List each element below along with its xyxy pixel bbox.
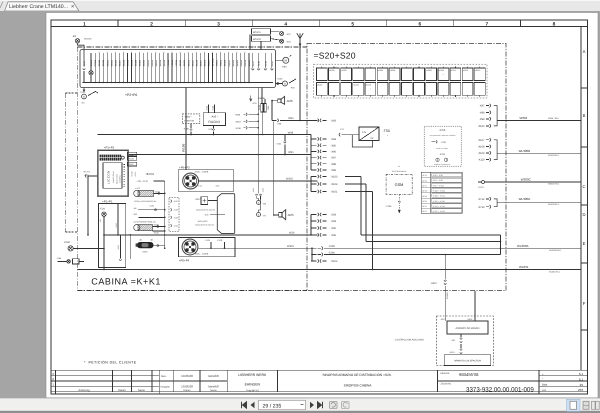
lamp -E9 bbox=[75, 39, 79, 43]
svg-text:6.1: 6.1 bbox=[579, 377, 584, 381]
svg-text:Name: Name bbox=[210, 389, 217, 392]
svg-text:-S8422: -S8422 bbox=[155, 59, 158, 67]
svg-text:-X98: -X98 bbox=[479, 112, 485, 115]
first page button bbox=[242, 402, 247, 408]
svg-text:+E+K2: +E+K2 bbox=[145, 172, 154, 176]
svg-text:-X191: -X191 bbox=[173, 225, 178, 228]
wire -X103 route down bbox=[345, 176, 361, 178]
GSM connector -X788 bbox=[398, 195, 400, 200]
svg-text:APARATO DE MANDO: APARATO DE MANDO bbox=[456, 327, 480, 330]
radio top connectors bbox=[208, 105, 210, 113]
svg-text:+F109 ÷ +F114: +F109 ÷ +F114 bbox=[433, 195, 445, 198]
svg-text:1040: 1040 bbox=[267, 106, 270, 110]
svg-text:+E106: +E106 bbox=[127, 172, 130, 177]
svg-text:W300C/S6.1: W300C/S6.1 bbox=[548, 183, 560, 186]
svg-text:RADIO: RADIO bbox=[208, 120, 220, 124]
wire W19 bbox=[104, 234, 318, 236]
svg-text:8: 8 bbox=[553, 21, 556, 27]
junction bus at 500 bbox=[500, 235, 502, 255]
plug stack -X93..-X96 bbox=[310, 215, 312, 235]
svg-text:Zeichn-Nr.: Zeichn-Nr. bbox=[441, 383, 452, 386]
svg-text:-X910: -X910 bbox=[431, 282, 438, 285]
horn connectors -X135 -X136 bbox=[255, 194, 257, 195]
svg-text:W163C°: W163C° bbox=[84, 38, 92, 41]
svg-text:-S8407: -S8407 bbox=[199, 59, 202, 67]
svg-text:-B26: -B26 bbox=[286, 99, 293, 103]
svg-text:+E108: +E108 bbox=[131, 172, 134, 177]
svg-text:=K219: =K219 bbox=[366, 83, 371, 86]
svg-text:12V: 12V bbox=[362, 131, 367, 134]
svg-text:+P1+P1: +P1+P1 bbox=[102, 199, 113, 203]
svg-text:-X147: -X147 bbox=[252, 60, 255, 67]
svg-text:-S8429: -S8429 bbox=[248, 59, 251, 67]
svg-text:-X99: -X99 bbox=[479, 118, 485, 121]
wire -X101 route down bbox=[345, 191, 373, 193]
svg-text:WL631/S6.1: WL631/S6.1 bbox=[549, 270, 561, 273]
facing view button bbox=[592, 401, 596, 409]
round connector -X325 lower bbox=[182, 239, 198, 255]
wire -E940 to bus bbox=[73, 247, 104, 249]
next page button bbox=[310, 402, 314, 408]
svg-text:-XF21: -XF21 bbox=[422, 205, 427, 208]
svg-text:*: * bbox=[443, 74, 444, 77]
wire -X931 down bbox=[87, 176, 89, 235]
svg-text:W308/9: W308/9 bbox=[446, 292, 449, 299]
rotate left button bbox=[330, 402, 338, 409]
wire -X156 in console bbox=[117, 204, 119, 235]
sheet number block bbox=[539, 375, 588, 377]
svg-text:-XF17: -XF17 bbox=[422, 184, 427, 187]
frame right inner margin line bbox=[581, 26, 588, 28]
svg-text:-H9014: -H9014 bbox=[167, 59, 170, 67]
svg-text:WL300/S6.1: WL300/S6.1 bbox=[548, 203, 560, 206]
voltage converter -T50 bbox=[359, 127, 379, 141]
svg-text:-X573: -X573 bbox=[440, 318, 446, 321]
wires resistor pack bbox=[261, 88, 263, 104]
svg-text:Ident-Nr.: Ident-Nr. bbox=[441, 372, 451, 375]
svg-text:✕: ✕ bbox=[71, 4, 75, 10]
wire W304 to edge bbox=[497, 119, 581, 121]
wire WL631 to edge bbox=[77, 269, 581, 271]
svg-text:-X705: -X705 bbox=[439, 129, 446, 132]
svg-text:+E99: +E99 bbox=[235, 113, 241, 116]
svg-text:-S8437: -S8437 bbox=[191, 59, 194, 67]
switch lever -B3 bbox=[88, 92, 96, 96]
svg-text:-S8412: -S8412 bbox=[179, 59, 182, 67]
svg-text:-XF15: -XF15 bbox=[422, 174, 427, 177]
svg-text:-S8462: -S8462 bbox=[224, 59, 227, 67]
svg-text:-X101: -X101 bbox=[331, 191, 338, 194]
svg-text:-B25: -B25 bbox=[287, 213, 294, 217]
svg-text:-A84: -A84 bbox=[282, 66, 288, 69]
svg-text:-S8440: -S8440 bbox=[114, 59, 117, 67]
column number ticks bbox=[117, 20, 119, 27]
svg-text:-X181: -X181 bbox=[149, 204, 155, 207]
toolbar bbox=[0, 398, 600, 413]
svg-text:WL300A/S6.1: WL300A/S6.1 bbox=[549, 249, 562, 252]
heater lower connector -X574 bbox=[460, 349, 462, 350]
horn -H6 bbox=[257, 199, 259, 201]
svg-text:+F127 ÷ +F132: +F127 ÷ +F132 bbox=[433, 210, 445, 213]
svg-text:-S8461: -S8461 bbox=[236, 59, 239, 67]
svg-text:-A95 *: -A95 * bbox=[211, 115, 218, 118]
control unit box bbox=[217, 194, 234, 234]
svg-text:+T41,-Y142: +T41,-Y142 bbox=[136, 180, 148, 183]
svg-text:-S8431: -S8431 bbox=[187, 59, 190, 67]
svg-text:6: 6 bbox=[418, 21, 421, 27]
revision table bbox=[54, 370, 56, 394]
svg-text:6.1: 6.1 bbox=[579, 372, 584, 376]
svg-text:-H9016: -H9016 bbox=[244, 59, 247, 67]
LICCON pin row bbox=[123, 164, 125, 166]
svg-text:-X95: -X95 bbox=[331, 227, 337, 230]
heater control box APARATO DE MANDO bbox=[447, 321, 488, 334]
heater box APARATO CALEFACTOR bbox=[444, 355, 490, 366]
svg-text:-X110: -X110 bbox=[478, 159, 485, 162]
svg-text:Name: Name bbox=[138, 389, 145, 392]
svg-text:W301: W301 bbox=[287, 245, 294, 248]
svg-text:-S8444: -S8444 bbox=[98, 59, 101, 67]
wire -W901 to bus bbox=[154, 245, 165, 247]
plug -X83 bbox=[318, 119, 319, 122]
wire W301 bbox=[198, 247, 312, 249]
svg-text:-X86: -X86 bbox=[331, 151, 337, 154]
svg-text:-S8446: -S8446 bbox=[122, 59, 125, 67]
svg-text:-S8414: -S8414 bbox=[163, 59, 166, 67]
svg-text:=K218: =K218 bbox=[438, 69, 443, 72]
svg-text:-XF20: -XF20 bbox=[422, 200, 427, 203]
relay modules row 2 bbox=[316, 83, 327, 96]
svg-text:-G90 *: -G90 * bbox=[195, 198, 201, 201]
svg-text:-X101: -X101 bbox=[276, 142, 282, 145]
svg-text:W19: W19 bbox=[289, 232, 295, 235]
motor -A84 bbox=[276, 59, 283, 61]
svg-text:Copyright (c): Copyright (c) bbox=[246, 389, 259, 392]
svg-text:-14.GND: -14.GND bbox=[212, 58, 215, 67]
svg-text:Ges.: Ges. bbox=[161, 375, 167, 378]
antenna feed wire bbox=[299, 39, 301, 121]
svg-text:-X713: -X713 bbox=[478, 206, 485, 209]
svg-text:WL300A: WL300A bbox=[517, 244, 529, 248]
svg-text:B: B bbox=[583, 113, 586, 118]
svg-text:-W901: -W901 bbox=[142, 251, 148, 254]
svg-text:=K216: =K216 bbox=[353, 83, 358, 86]
loudspeaker -B25 bbox=[279, 212, 282, 217]
svg-text:3373-932.00.00.001-009: 3373-932.00.00.001-009 bbox=[466, 386, 534, 393]
svg-text:-X185: -X185 bbox=[153, 232, 159, 235]
console inner wire bbox=[129, 235, 131, 259]
svg-text:lweeih0: lweeih0 bbox=[208, 374, 219, 378]
svg-text:-X97: -X97 bbox=[479, 105, 485, 108]
svg-text:-X11: -X11 bbox=[99, 219, 102, 223]
svg-text:WL300B: WL300B bbox=[519, 149, 531, 153]
wire label box W1575 bbox=[252, 29, 271, 35]
svg-text:-X706: -X706 bbox=[439, 153, 446, 156]
connector -X101 drop bbox=[284, 135, 286, 142]
svg-text:-S8442: -S8442 bbox=[106, 59, 109, 67]
svg-text:-E3000: -E3000 bbox=[90, 59, 93, 67]
svg-text:APARATO CALEFACTOR: APARATO CALEFACTOR bbox=[454, 359, 481, 362]
svg-text:=K205: =K205 bbox=[390, 69, 395, 72]
svg-text:-X108: -X108 bbox=[478, 146, 485, 149]
svg-text:CABINA =K+K1: CABINA =K+K1 bbox=[91, 277, 161, 287]
svg-text:-X135: -X135 bbox=[252, 188, 255, 193]
svg-text:CONTROL: CONTROL bbox=[119, 175, 122, 183]
svg-text:-S8439: -S8439 bbox=[195, 59, 198, 67]
wires from W157 boxes to strip bbox=[249, 34, 251, 49]
svg-text:GSM: GSM bbox=[395, 183, 404, 187]
svg-text:1: 1 bbox=[83, 21, 86, 27]
connector box +P5+P4 bbox=[179, 238, 236, 257]
svg-text:=S20+S20: =S20+S20 bbox=[314, 51, 356, 61]
outlet plug -X761 bbox=[432, 141, 436, 143]
svg-text:-X190: -X190 bbox=[183, 127, 190, 130]
plug stack -X105 -X106 -X102 bbox=[311, 248, 313, 261]
inactive tab edge bbox=[0, 2, 3, 9]
svg-text:-X187: -X187 bbox=[173, 200, 178, 203]
horn -H7 bbox=[259, 200, 261, 213]
svg-text:-X158: -X158 bbox=[117, 245, 120, 250]
ident numbers block bbox=[538, 370, 540, 394]
svg-text:-X124: -X124 bbox=[205, 239, 211, 242]
svg-text:-S8434: -S8434 bbox=[139, 59, 142, 67]
svg-text:29: 29 bbox=[580, 383, 584, 387]
svg-text:19.06.08: 19.06.08 bbox=[181, 385, 193, 389]
svg-text:W302: W302 bbox=[286, 178, 293, 181]
key switch grid bbox=[100, 155, 102, 158]
svg-text:19.06.08: 19.06.08 bbox=[181, 374, 193, 378]
svg-text:-X128: -X128 bbox=[217, 239, 223, 242]
svg-text:-X148: -X148 bbox=[258, 60, 261, 67]
svg-text:-S8452: -S8452 bbox=[143, 59, 146, 67]
svg-text:-X149: -X149 bbox=[264, 60, 267, 67]
svg-text:W304: W304 bbox=[520, 116, 528, 120]
svg-text:-X712: -X712 bbox=[478, 198, 485, 201]
lamp -E3000 bbox=[89, 71, 93, 75]
svg-text:-X136: -X136 bbox=[261, 188, 264, 193]
side switches -S105 -S104 -S107 bbox=[128, 152, 137, 156]
svg-text:Datum: Datum bbox=[183, 389, 190, 392]
row letter ticks right margin bbox=[581, 87, 588, 89]
cabinet enclosure dash-dot box =S20+S20 bbox=[307, 44, 506, 291]
svg-text:-H9013: -H9013 bbox=[151, 59, 154, 67]
previous page button bbox=[251, 402, 255, 408]
connector box +P6+P3 bbox=[178, 170, 234, 192]
svg-text:EHINGEN: EHINGEN bbox=[245, 383, 261, 387]
svg-text:+F115 ÷ +F120: +F115 ÷ +F120 bbox=[433, 200, 445, 203]
svg-text:29 / 235: 29 / 235 bbox=[263, 403, 282, 409]
svg-text:-S8448: -S8448 bbox=[131, 59, 134, 67]
lamp -E19 bbox=[271, 39, 280, 40]
svg-text:W96: W96 bbox=[288, 117, 294, 120]
console box +P1+P2 bbox=[98, 150, 129, 196]
page number field bbox=[259, 400, 306, 409]
svg-text:-XF22: -XF22 bbox=[422, 210, 427, 213]
wire W302 bbox=[198, 180, 317, 182]
svg-text:-E21: -E21 bbox=[286, 33, 291, 36]
svg-text:-S8409: -S8409 bbox=[203, 59, 206, 67]
svg-text:-S104: -S104 bbox=[128, 158, 134, 161]
svg-text:W156: W156 bbox=[182, 143, 186, 152]
svg-text:-X96: -X96 bbox=[331, 234, 337, 237]
svg-text:F: F bbox=[583, 301, 586, 306]
frame top band line bbox=[51, 26, 588, 28]
svg-text:-S8445: -S8445 bbox=[127, 59, 130, 67]
single page view button active bbox=[567, 399, 581, 411]
rotate right button bbox=[342, 402, 350, 409]
wire from -E9 bbox=[78, 43, 85, 67]
svg-text:-X144: -X144 bbox=[212, 106, 215, 111]
sensor -A143 with switch -A94 bbox=[276, 83, 283, 85]
svg-text:von: von bbox=[542, 389, 547, 392]
title block top line bbox=[51, 369, 588, 371]
relay rack dashed outline bbox=[314, 64, 488, 98]
svg-text:Änderung: Änderung bbox=[78, 388, 90, 392]
pedal bus vertical bbox=[164, 181, 166, 248]
wire -X106 run bbox=[324, 254, 501, 256]
lamp -E21 bbox=[271, 31, 280, 33]
svg-text:W95: W95 bbox=[288, 151, 294, 154]
svg-text:LICCON: LICCON bbox=[107, 170, 111, 184]
svg-text:-X106: -X106 bbox=[328, 251, 335, 254]
LICCON display box bbox=[103, 163, 122, 189]
svg-text:-S8421: -S8421 bbox=[183, 59, 186, 67]
svg-text:WL631: WL631 bbox=[519, 265, 529, 269]
svg-text:-X102: -X102 bbox=[331, 260, 338, 263]
svg-text:=K202: =K202 bbox=[341, 69, 346, 72]
svg-text:MANDO GRUA: MANDO GRUA bbox=[112, 171, 115, 183]
svg-text:-X931: -X931 bbox=[84, 174, 90, 177]
svg-text:-X8640: -X8640 bbox=[240, 59, 243, 67]
svg-text:-X107: -X107 bbox=[478, 139, 485, 142]
svg-text:W98: W98 bbox=[288, 131, 294, 134]
heater dashed box bbox=[437, 316, 494, 366]
wire -X158 down from console bbox=[119, 235, 121, 259]
terminal strip +P2+P6 bbox=[80, 50, 276, 88]
svg-text:+P5+P4: +P5+P4 bbox=[179, 259, 190, 263]
svg-text:* PETICIÓN DEL CLIENTE: * PETICIÓN DEL CLIENTE bbox=[84, 360, 137, 365]
svg-text:233: 233 bbox=[578, 388, 583, 392]
svg-text:-X188: -X188 bbox=[173, 209, 178, 212]
last page button bbox=[318, 402, 323, 408]
svg-text:-E28: -E28 bbox=[100, 208, 106, 211]
loudspeaker -B26 bbox=[278, 99, 281, 103]
svg-text:-A900B: -A900B bbox=[258, 97, 266, 100]
svg-text:GRABADOR DE MANTO.: GRABADOR DE MANTO. bbox=[196, 209, 216, 212]
plug stack -X103 -X104 -X101 bbox=[310, 177, 312, 192]
svg-text:W1575: W1575 bbox=[253, 31, 261, 34]
svg-text:-E9: -E9 bbox=[72, 35, 77, 38]
GSM dashed box bbox=[386, 174, 412, 194]
svg-text:Ausgabe: Ausgabe bbox=[160, 385, 170, 388]
svg-text:-X109: -X109 bbox=[478, 152, 485, 155]
svg-text:-E940: -E940 bbox=[64, 241, 71, 244]
svg-text:-H9011: -H9011 bbox=[175, 59, 178, 67]
plug stack -X84..-X89 bbox=[310, 135, 312, 171]
svg-text:+E112: +E112 bbox=[134, 172, 137, 177]
svg-text:-P7855: -P7855 bbox=[94, 59, 97, 67]
svg-text:-T50: -T50 bbox=[383, 129, 390, 133]
strip bus bar bbox=[83, 82, 274, 84]
svg-text:-X788: -X788 bbox=[386, 205, 393, 208]
svg-text:3: 3 bbox=[217, 21, 220, 27]
svg-text:9V: 9V bbox=[371, 137, 374, 140]
active tab bbox=[5, 2, 80, 11]
sheet arrow -X78 bbox=[250, 96, 252, 101]
svg-text:-S8447: -S8447 bbox=[118, 59, 121, 67]
wire to -B25 bbox=[274, 214, 279, 216]
outlet dashed box -X705 bbox=[424, 126, 461, 166]
svg-text:-X575: -X575 bbox=[467, 318, 473, 321]
svg-text:-S8441: -S8441 bbox=[110, 59, 113, 67]
outlet sockets bbox=[436, 158, 439, 161]
svg-text:-X189: -X189 bbox=[173, 216, 178, 219]
heater middle connector -X91 bbox=[460, 334, 462, 338]
svg-text:-H9015: -H9015 bbox=[171, 59, 174, 67]
svg-text:-X84: -X84 bbox=[331, 138, 337, 141]
svg-text:-X142: -X142 bbox=[80, 91, 87, 94]
continuous view button bbox=[583, 401, 589, 409]
svg-text:INDICACION: INDICACION bbox=[115, 173, 118, 184]
wire WL300B to edge bbox=[497, 152, 581, 154]
wire W98 bbox=[98, 134, 312, 136]
heater feed wire -X910 bbox=[444, 255, 446, 280]
svg-text:SINOPSIS ARMARIO DE DISTRIBUCI: SINOPSIS ARMARIO DE DISTRIBUCIÓN =S20 , bbox=[323, 373, 393, 377]
vertical bus from strip bbox=[257, 88, 259, 194]
svg-text:-X87: -X87 bbox=[331, 157, 337, 160]
svg-text:Blatt: Blatt bbox=[542, 384, 547, 387]
fuse table bbox=[421, 172, 462, 213]
svg-text:-X325_ -X325B: -X325_ -X325B bbox=[194, 253, 209, 256]
approval block Ges/Ausgabe bbox=[173, 370, 175, 392]
svg-text:-X93: -X93 bbox=[331, 214, 337, 217]
wire WL300D to edge bbox=[497, 201, 581, 203]
pedal connector dashed box bbox=[169, 198, 179, 232]
svg-text:=K212: =K212 bbox=[463, 69, 468, 72]
svg-text:-X103: -X103 bbox=[331, 176, 338, 179]
window bottom edge bbox=[0, 411, 600, 413]
svg-text:-X89: -X89 bbox=[331, 169, 337, 172]
wire -X104 route down bbox=[345, 183, 366, 185]
svg-text:-A94: -A94 bbox=[290, 87, 295, 90]
svg-text:=K214: =K214 bbox=[475, 69, 480, 72]
svg-text:-E19: -E19 bbox=[286, 40, 291, 43]
svg-text:-X105: -X105 bbox=[328, 245, 335, 248]
wire WL300A to edge bbox=[324, 247, 581, 249]
svg-text:lweeih0: lweeih0 bbox=[208, 385, 219, 389]
svg-text:2: 2 bbox=[150, 21, 153, 27]
svg-text:-XF18: -XF18 bbox=[422, 190, 427, 193]
svg-text:Datum: Datum bbox=[118, 389, 126, 392]
svg-text:+P1+P2: +P1+P2 bbox=[104, 146, 115, 150]
navigator dashed box -A906 TOMTOM bbox=[182, 114, 200, 124]
svg-text:W304 /30.8: W304 /30.8 bbox=[548, 117, 560, 120]
svg-text:Liebherr Crane LTM140...: Liebherr Crane LTM140... bbox=[9, 4, 68, 10]
svg-text:-X8601: -X8601 bbox=[220, 59, 223, 67]
wire to -B26 bbox=[272, 100, 278, 102]
svg-text:-X761: -X761 bbox=[441, 141, 447, 144]
svg-text:+P2+P6: +P2+P6 bbox=[125, 93, 137, 97]
manufacturer block LIEBHERR WERK EHINGEN bbox=[277, 370, 279, 392]
converter under loop bbox=[352, 135, 372, 147]
svg-text:-S107: -S107 bbox=[128, 163, 134, 166]
harness W156 to P6P3 bbox=[185, 88, 187, 170]
wire B25 feed vertical bbox=[273, 122, 275, 216]
svg-text:=K211: =K211 bbox=[451, 69, 456, 72]
round connector -X325 bbox=[183, 173, 199, 189]
svg-text:-X178: -X178 bbox=[478, 186, 485, 189]
svg-text:-X150: -X150 bbox=[271, 60, 274, 67]
